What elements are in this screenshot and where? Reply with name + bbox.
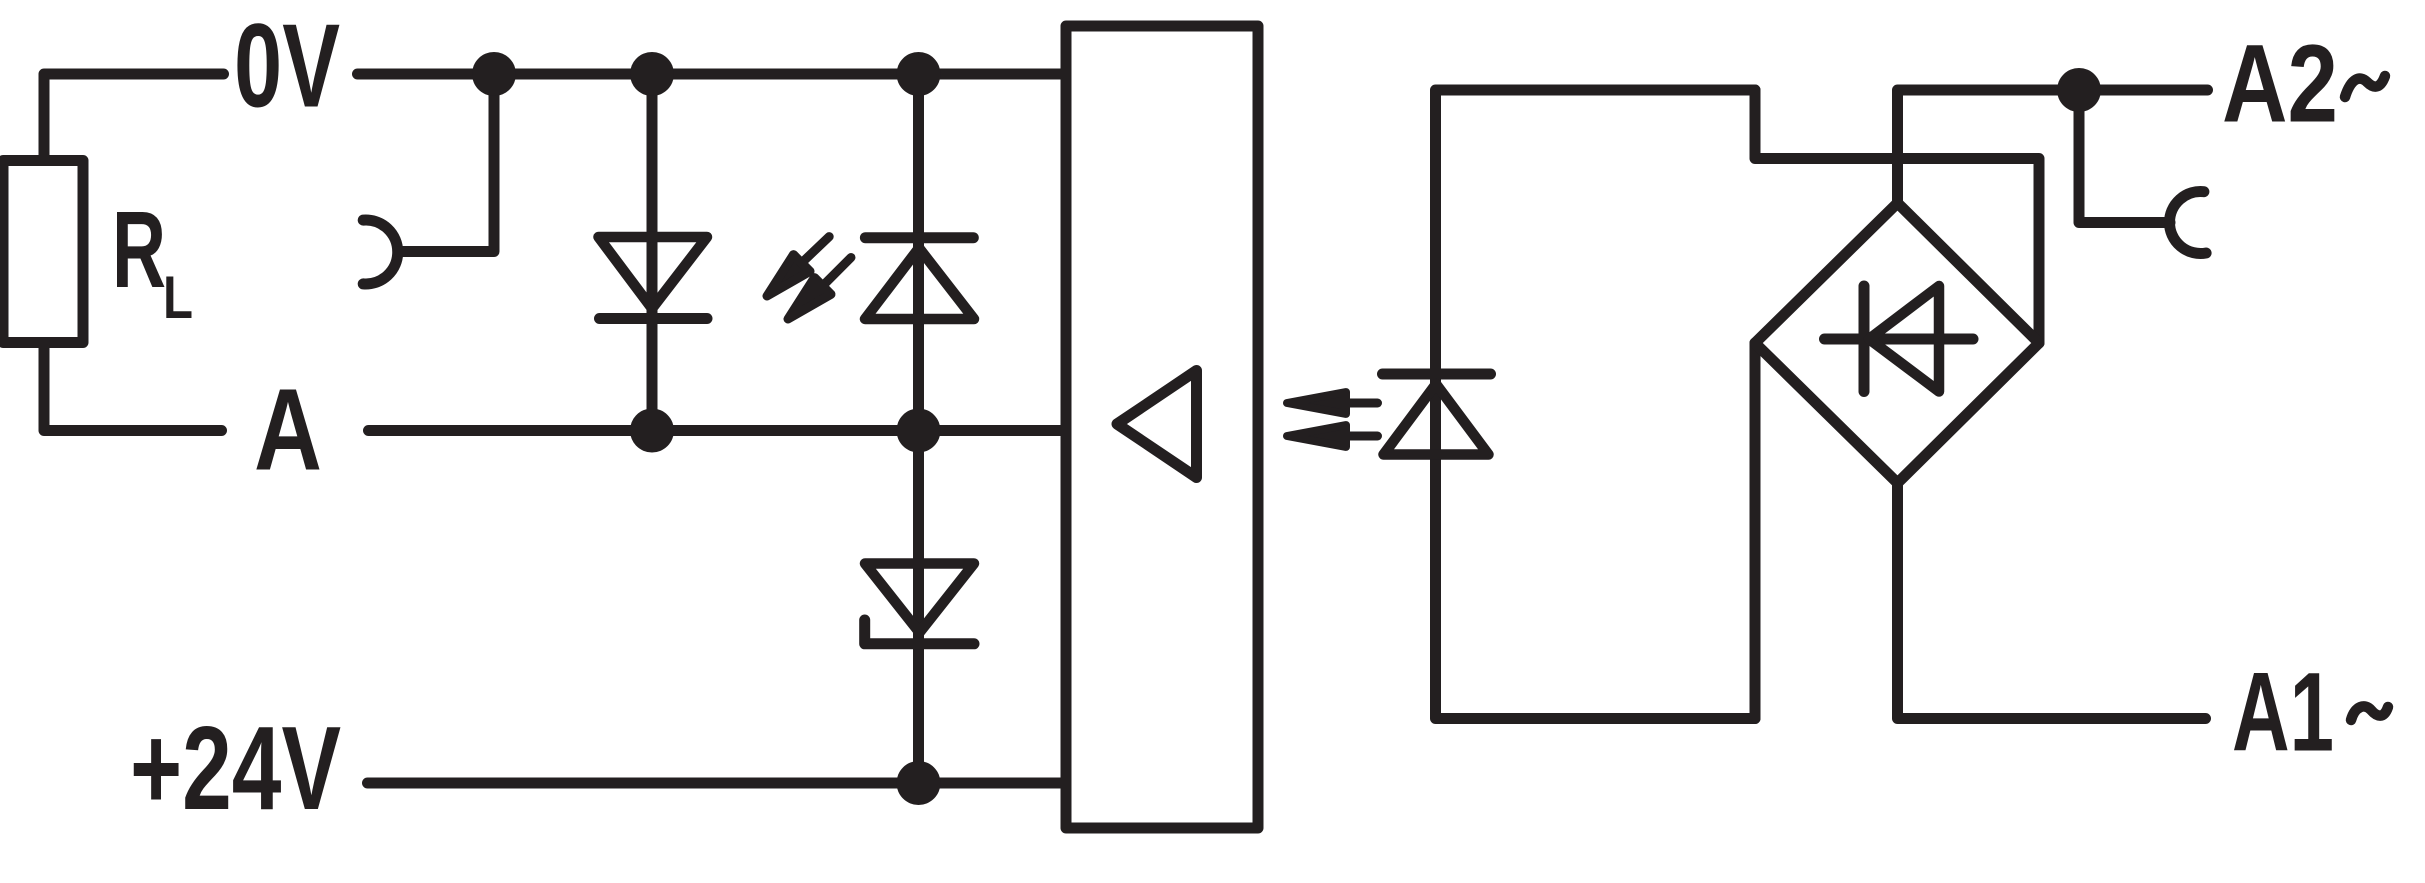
connector contact socket right (arc) <box>2170 192 2207 254</box>
opto input block U1 rectangle <box>1066 26 1258 828</box>
svg-text:R: R <box>112 189 166 311</box>
light arrow lower toward U1 shaft <box>1346 432 1378 441</box>
light arrow upper head <box>1287 392 1346 414</box>
svg-text:L: L <box>163 264 193 331</box>
diode D1 triangle <box>599 237 708 309</box>
node dot 0V-socket <box>472 52 516 96</box>
svg-text:A1: A1 <box>2232 650 2334 775</box>
node dot 0V-D1 <box>630 52 674 96</box>
svg-text:+24V: +24V <box>130 702 341 835</box>
wire zener D3 branch A to +24V <box>913 431 924 784</box>
node dot A-D2 <box>897 409 941 453</box>
wire socket to node on 0V line <box>399 74 494 252</box>
wire 0V main segment to input block U1 <box>358 69 1067 80</box>
LED D2 emission arrow lower head <box>788 278 831 319</box>
amplifier triangle inside U1 <box>1117 371 1197 478</box>
wire A1 from bridge bottom vertex to terminal <box>1898 483 2206 719</box>
light arrow upper toward U1 shaft <box>1346 399 1378 408</box>
output block outline left C shape <box>1436 90 1756 719</box>
node dot A2 branch <box>2057 68 2101 112</box>
wire LED D2 branch 0V to A <box>913 74 924 431</box>
zener D3 cathode bar with hook <box>865 620 974 644</box>
wire diode D1 branch 0V to A <box>647 74 658 431</box>
svg-text:A2: A2 <box>2222 23 2338 146</box>
label A1 tilde <box>2351 706 2388 720</box>
diode D1 cathode bar <box>600 313 708 324</box>
bridge diode D6 cathode bar <box>1859 286 1870 392</box>
svg-text:0V: 0V <box>234 0 340 133</box>
wire 0V left segment with corner down to resistor RL <box>44 74 224 161</box>
LED D2 emission arrow upper shaft <box>803 237 829 262</box>
output block outline notch to bridge right vertex <box>1755 90 2039 343</box>
LED D2 cathode bar <box>865 232 973 243</box>
bridge diode D6 horizontal wire <box>1825 334 1974 345</box>
node dot +24V-D3 <box>897 761 941 805</box>
wire A main segment to input block U1 <box>369 425 1067 436</box>
photodiode D5 triangle <box>1384 384 1489 455</box>
zener D3 triangle <box>865 564 974 633</box>
connector contact socket left (arc) <box>363 220 398 284</box>
output block outline left vertex riser <box>1750 343 1761 719</box>
LED D2 triangle <box>865 248 974 319</box>
label A2 tilde <box>2345 76 2385 97</box>
wire +24V segment to input block U1 <box>368 778 1067 789</box>
wire A2 from bridge top vertex to terminal <box>1898 90 2208 203</box>
LED D2 emission arrow upper head <box>767 255 810 296</box>
wire branch node A2 to connector socket <box>2079 90 2170 223</box>
wire resistor RL bottom to node A line <box>44 343 222 431</box>
svg-text:A: A <box>254 365 322 495</box>
node dot 0V-D2 <box>897 52 941 96</box>
bridge rectifier diamond <box>1755 203 2039 483</box>
bridge diode D6 triangle <box>1869 286 1939 392</box>
node dot A-D1 <box>630 409 674 453</box>
LED D2 emission arrow lower shaft <box>825 258 852 285</box>
light arrow lower head <box>1287 425 1346 447</box>
resistor RL body <box>3 161 83 343</box>
photodiode D5 cathode bar on block edge <box>1383 369 1491 380</box>
